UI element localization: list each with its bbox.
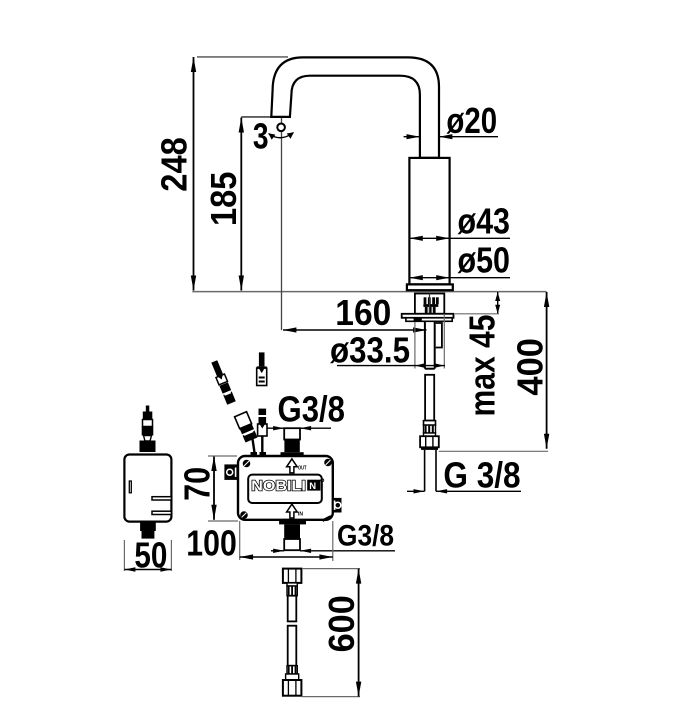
flex hose tube upper bbox=[288, 596, 297, 622]
flex hose tube lower bbox=[288, 626, 297, 666]
extension lines 70 bbox=[208, 455, 237, 457]
tailpiece rod bbox=[424, 321, 426, 368]
dimension G3/8 bottom arrows bbox=[271, 550, 284, 552]
wire cable C (tilted, into box) bbox=[235, 412, 258, 443]
svg-text:NOBILI: NOBILI bbox=[251, 477, 305, 494]
hose collar bbox=[424, 421, 436, 426]
svg-text:ø20: ø20 bbox=[446, 100, 497, 141]
svg-text:160: 160 bbox=[335, 292, 391, 333]
extension lines 100 bbox=[239, 521, 241, 560]
dimension max45 line bbox=[497, 292, 499, 314]
dimension G3/8 line bbox=[407, 490, 425, 492]
OUT arrow bbox=[287, 459, 298, 473]
shank thread hatch bbox=[423, 297, 438, 313]
extension line hose end bbox=[439, 450, 548, 452]
svg-text:G 3/8: G 3/8 bbox=[443, 454, 520, 495]
svg-text:max 45: max 45 bbox=[462, 315, 503, 417]
valve bottom block bbox=[140, 522, 156, 531]
shank axis line bbox=[429, 294, 431, 314]
hose collar 2 bbox=[424, 433, 436, 436]
svg-text:100: 100 bbox=[186, 522, 237, 563]
dimension 600 line bbox=[358, 569, 360, 697]
svg-text:400: 400 bbox=[510, 338, 551, 396]
valve left slot bbox=[129, 481, 131, 493]
dimension 160 line bbox=[283, 329, 427, 331]
fixing stud bracket bbox=[436, 323, 442, 348]
wire plug B (vertical, floating) bbox=[257, 352, 267, 385]
extension lines 600 bbox=[302, 568, 360, 570]
supply hose tube bbox=[425, 375, 434, 421]
washer plate bbox=[402, 314, 454, 318]
flex hose top nut bbox=[283, 569, 302, 583]
base flange o50 bbox=[407, 284, 453, 290]
wire plug A (tilted, floating) bbox=[210, 360, 236, 405]
svg-text:248: 248 bbox=[154, 137, 195, 192]
dimension 100 line bbox=[240, 556, 333, 558]
dimension o20 line bbox=[404, 136, 420, 138]
degree symbol circle bbox=[277, 124, 285, 132]
aerator axis line bbox=[281, 117, 283, 330]
extension line top (spout top reference) bbox=[197, 56, 288, 58]
valve right notches bbox=[152, 497, 171, 500]
mounting shank bbox=[415, 294, 444, 314]
outlet port bottom bbox=[279, 521, 306, 524]
svg-text:N: N bbox=[309, 481, 316, 492]
faucet body bbox=[409, 158, 449, 285]
screw top-left bbox=[243, 460, 251, 468]
flex hose crimp top bbox=[287, 583, 297, 586]
svg-text:ø43: ø43 bbox=[458, 201, 511, 242]
dimension 50 line bbox=[124, 569, 171, 571]
svg-text:3: 3 bbox=[253, 116, 269, 157]
logo square bbox=[307, 480, 320, 491]
wire cable D (vertical, into box) bbox=[258, 409, 267, 436]
svg-text:ø50: ø50 bbox=[458, 239, 511, 280]
dimension o43 line bbox=[409, 237, 510, 239]
control box bbox=[238, 456, 333, 520]
angle arc with arrows bbox=[269, 133, 294, 138]
svg-text:600: 600 bbox=[321, 595, 362, 652]
dimension G3/8 top arrows bbox=[267, 427, 284, 429]
wire entry feet bbox=[251, 452, 258, 456]
svg-text:IN: IN bbox=[298, 511, 303, 517]
dimension 70 line bbox=[213, 456, 215, 520]
flex hose bottom nut bbox=[283, 680, 302, 696]
electronic valve plug stack bbox=[140, 406, 156, 453]
dimension 400 line bbox=[546, 292, 548, 449]
G3/8 thread lines bbox=[424, 450, 426, 491]
flex hose crimp bottom bbox=[287, 666, 297, 674]
svg-text:70: 70 bbox=[177, 467, 218, 501]
svg-text:185: 185 bbox=[203, 172, 244, 226]
nut bottom bar bbox=[421, 447, 438, 450]
left connector bbox=[224, 464, 237, 480]
screw bottom-left bbox=[240, 511, 248, 519]
extension line washer top bbox=[455, 313, 499, 315]
electronic valve body bbox=[124, 455, 171, 522]
extension line outlet face left bbox=[241, 116, 273, 118]
svg-text:ø33.5: ø33.5 bbox=[330, 330, 410, 371]
dimension o33.5 line bbox=[337, 365, 445, 367]
svg-text:G3/8: G3/8 bbox=[278, 389, 346, 430]
spout tube bbox=[271, 57, 439, 157]
hose crimp ribs bbox=[424, 425, 436, 433]
extension lines 50 bbox=[123, 540, 125, 571]
connector nut bbox=[420, 436, 439, 447]
right connector bbox=[333, 498, 342, 513]
extension line deck surface bbox=[192, 291, 546, 293]
inlet port top bbox=[284, 428, 300, 439]
IN arrow bbox=[287, 504, 298, 518]
extension lines o33.5 bbox=[414, 322, 416, 369]
dimension 185 line bbox=[240, 118, 242, 291]
screw top-right bbox=[324, 459, 332, 467]
dimension o50 line bbox=[409, 277, 510, 279]
corner notch bottom-right bbox=[323, 516, 332, 520]
svg-text:OUT: OUT bbox=[298, 466, 307, 472]
nameplate frame bbox=[248, 475, 322, 503]
svg-text:50: 50 bbox=[134, 535, 167, 576]
dimension 248 line bbox=[193, 57, 195, 291]
svg-text:G3/8: G3/8 bbox=[337, 520, 394, 553]
